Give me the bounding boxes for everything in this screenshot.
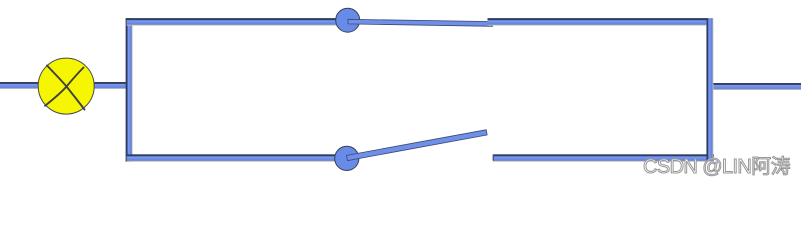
lamp L1 [38,58,94,114]
wire: left lead from edge to lamp [0,82,39,89]
wire end cap (bottom fixed contact, left end) [493,155,494,161]
wire: right vertical bus [706,18,713,160]
switch S1 (top, nearly closed) [336,8,493,32]
switch S1 blade [348,19,493,26]
switch S2 blade [347,130,488,161]
switch S2 (bottom, open) [335,130,487,171]
wire: bottom branch fixed contact segment [493,154,714,161]
switch S2 pivot [335,146,359,170]
wire: bottom branch left segment [127,154,338,161]
wire: top branch fixed contact segment [488,18,707,26]
wire: right lead to edge [709,83,801,90]
watermark [643,157,801,177]
switch S1 pivot [336,8,360,32]
wire: lamp to left vertical bus [93,82,127,89]
wire: left vertical bus [126,18,133,162]
wire: top branch left segment [127,18,337,26]
